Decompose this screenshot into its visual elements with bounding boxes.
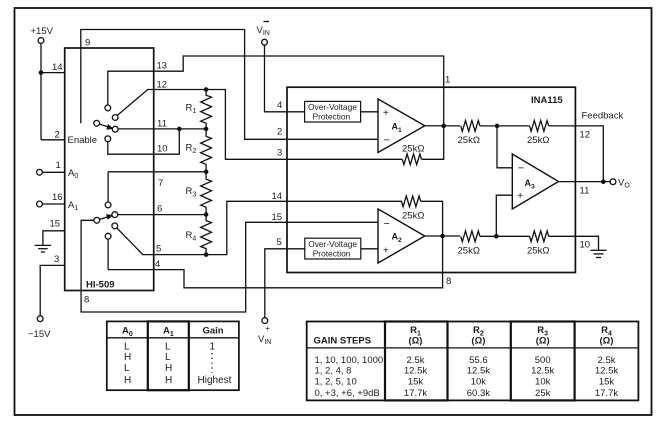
wire Vin+ to INA pin 5 <box>265 249 305 318</box>
svg-text:L: L <box>165 342 171 353</box>
terminal circle 1 <box>37 169 43 175</box>
resistor R1 <box>201 90 212 129</box>
svg-text:+: + <box>265 324 270 333</box>
svg-text:−: − <box>384 218 390 230</box>
svg-text:−: − <box>384 135 390 147</box>
wire A1 feedback <box>422 126 444 159</box>
resistor A1 feedback 25k <box>402 154 421 165</box>
wire Vin- to INA pin 4 <box>265 45 305 112</box>
svg-text:GAIN STEPS: GAIN STEPS <box>314 336 372 347</box>
svg-text:2.5k: 2.5k <box>598 355 616 366</box>
svg-text:A0: A0 <box>122 326 133 339</box>
svg-text:17.7k: 17.7k <box>404 388 427 399</box>
node A3 plus junction <box>494 234 499 239</box>
svg-text:25kΩ: 25kΩ <box>458 135 480 146</box>
multiplexer HI-509 box <box>65 48 154 291</box>
wire A1 out <box>425 125 460 127</box>
wire pin 9 to INA pin 2 <box>81 30 378 140</box>
terminal circle 0 <box>38 38 44 44</box>
amplifier INA115 box <box>287 87 575 272</box>
wire A2 out <box>425 235 460 237</box>
svg-text:Feedback: Feedback <box>582 111 624 122</box>
wire throw to pin 4 <box>107 239 109 270</box>
wire to A3 minus <box>497 126 512 168</box>
svg-text:A1: A1 <box>68 200 78 212</box>
svg-text:H: H <box>124 375 131 386</box>
wire to A3 plus <box>496 195 512 236</box>
svg-text:12.5k: 12.5k <box>595 366 618 377</box>
wire A3 out to Vo <box>559 181 611 183</box>
svg-text:25kΩ: 25kΩ <box>458 246 480 257</box>
svg-text:R3: R3 <box>186 186 197 199</box>
svg-text:15: 15 <box>50 219 61 230</box>
svg-text:(Ω): (Ω) <box>471 336 485 347</box>
svg-text:Enable: Enable <box>68 135 98 146</box>
wire pin 6 <box>118 214 207 216</box>
wire throw to pin 13 <box>108 71 154 105</box>
svg-text:A1: A1 <box>163 326 174 339</box>
switch contact circle 5 <box>105 202 111 208</box>
over-voltage protection box 2 <box>305 238 361 259</box>
svg-text:Protection: Protection <box>313 112 351 122</box>
node R4 bottom <box>204 252 209 257</box>
svg-text:2: 2 <box>55 130 60 141</box>
svg-text:500: 500 <box>535 355 551 366</box>
resistor R3 <box>201 172 212 215</box>
svg-text:25kΩ: 25kΩ <box>402 144 424 155</box>
svg-text:55.6: 55.6 <box>469 355 488 366</box>
svg-text:H: H <box>165 375 172 386</box>
svg-text:R4: R4 <box>186 230 197 243</box>
wire pin 5 to INA pin 14 <box>206 201 402 254</box>
switch contact circle 8 <box>112 223 118 229</box>
svg-text:A0: A0 <box>68 168 78 180</box>
svg-text:11: 11 <box>580 186 590 197</box>
svg-text:VO: VO <box>618 178 630 190</box>
wire pin 8 to INA pin 15 <box>81 222 378 312</box>
svg-text:+: + <box>383 246 389 257</box>
node Vo <box>601 179 606 184</box>
svg-text:1, 2, 5, 10: 1, 2, 5, 10 <box>315 376 357 387</box>
svg-text:VIN: VIN <box>257 25 270 37</box>
over-voltage protection box 1 <box>305 101 361 122</box>
node A2 out <box>440 234 445 239</box>
lower wiper arrowhead <box>107 215 113 219</box>
wire pin 10 <box>108 129 180 154</box>
node A3 minus junction <box>495 124 500 129</box>
svg-text:Over-Voltage: Over-Voltage <box>308 239 357 249</box>
svg-text:5: 5 <box>156 244 161 255</box>
svg-text:−15V: −15V <box>28 329 51 340</box>
node pin10/11 junction <box>177 127 182 132</box>
wire pin 15 <box>43 231 65 246</box>
switch contact circle 6 <box>112 212 118 218</box>
wire throw to pin 5 <box>117 228 206 255</box>
svg-text:L: L <box>124 342 130 353</box>
node R1/R2 junction <box>204 127 209 132</box>
wire pin 12 to INA pin 3 <box>206 90 402 160</box>
resistor 25k upper right <box>530 121 549 132</box>
node R3/R4 junction <box>204 212 209 217</box>
op-amp A2 <box>378 209 425 263</box>
wire +15V down <box>40 43 42 140</box>
svg-text:5: 5 <box>277 237 282 248</box>
terminal circle 6 <box>610 179 616 185</box>
svg-text:4: 4 <box>277 100 282 111</box>
svg-text:10: 10 <box>157 144 168 155</box>
svg-text:60.3k: 60.3k <box>467 388 490 399</box>
svg-text:3: 3 <box>277 148 282 159</box>
svg-text:Protection: Protection <box>313 249 351 259</box>
wire feedback to Vo <box>549 126 604 182</box>
svg-text:4: 4 <box>155 259 160 270</box>
svg-text:1, 10, 100, 1000: 1, 10, 100, 1000 <box>315 355 384 366</box>
svg-text:2.5k: 2.5k <box>407 355 425 366</box>
wire lower wiper arm <box>100 216 110 219</box>
wire pin 13 to INA pin 1 <box>154 56 444 126</box>
svg-text:Highest: Highest <box>198 375 232 386</box>
svg-text:HI-509: HI-509 <box>86 280 115 291</box>
resistor R4 <box>201 215 212 255</box>
svg-text:3: 3 <box>54 254 59 265</box>
node R2/R3 junction <box>204 170 209 175</box>
svg-text:VIN: VIN <box>258 334 271 346</box>
op-amp A3 <box>512 154 558 209</box>
svg-text:13: 13 <box>157 61 168 72</box>
svg-text:15: 15 <box>272 212 283 223</box>
node R1 top <box>204 87 209 92</box>
svg-text:12.5k: 12.5k <box>467 366 490 377</box>
ground at pin 15 <box>35 244 52 246</box>
svg-text:8: 8 <box>446 276 451 287</box>
upper wiper arrowhead <box>107 125 113 129</box>
switch contact circle 1 <box>112 115 118 121</box>
terminal circle 3 <box>37 316 43 322</box>
Vin- overbar <box>264 21 270 23</box>
terminal circle 4 <box>262 39 268 45</box>
svg-text:R2: R2 <box>186 143 197 156</box>
svg-text:Over-Voltage: Over-Voltage <box>308 102 357 112</box>
switch contact circle 9 <box>105 233 111 239</box>
svg-text:11: 11 <box>157 119 167 130</box>
wire A1out-chain <box>480 125 530 127</box>
svg-text:9: 9 <box>85 38 90 49</box>
wire A2 feedback <box>421 201 443 236</box>
wire pin10 to ground <box>549 236 599 250</box>
switch contact circle 2 <box>94 120 100 126</box>
resistor 25k lower left <box>461 231 480 242</box>
svg-text:12: 12 <box>580 130 591 141</box>
wire pin 3 <box>40 265 64 316</box>
svg-text:12.5k: 12.5k <box>404 366 427 377</box>
svg-text:7: 7 <box>158 178 163 189</box>
ground at pin 10 <box>591 249 607 251</box>
svg-text:2: 2 <box>277 127 282 138</box>
svg-text:8: 8 <box>84 295 89 306</box>
wire A2out-chain <box>480 235 530 237</box>
svg-text:INA115: INA115 <box>531 95 563 106</box>
svg-text:+: + <box>383 108 389 119</box>
svg-text:12: 12 <box>157 80 168 91</box>
svg-text:10: 10 <box>580 240 591 251</box>
wire OVP2 to A2 + <box>361 248 378 250</box>
wire upper wiper arm <box>100 124 110 127</box>
svg-text:−: − <box>518 163 524 175</box>
wire pin 1 A0 <box>42 171 64 173</box>
svg-text:12.5k: 12.5k <box>531 366 554 377</box>
switch contact circle 7 <box>94 217 100 223</box>
svg-text:(Ω): (Ω) <box>536 336 550 347</box>
wire pin 14 <box>41 72 65 74</box>
wire lower common <box>81 220 94 290</box>
resistor A2 feedback 25k <box>402 196 421 207</box>
svg-text:(Ω): (Ω) <box>409 336 423 347</box>
wire pin 7 <box>108 171 206 173</box>
resistor 25k lower right <box>530 231 549 242</box>
resistor 25k upper left <box>461 121 480 132</box>
svg-text:10k: 10k <box>535 376 551 387</box>
svg-text:H: H <box>165 363 172 374</box>
node +15V/pin14 junction <box>39 70 44 75</box>
svg-text:1, 2, 4, 8: 1, 2, 4, 8 <box>315 366 352 377</box>
terminal circle 5 <box>262 318 268 324</box>
resistor R2 <box>201 129 212 172</box>
svg-text:6: 6 <box>157 204 162 215</box>
svg-text:25kΩ: 25kΩ <box>527 135 549 146</box>
svg-text:(Ω): (Ω) <box>600 336 614 347</box>
wire pin 11 <box>118 128 206 130</box>
svg-text:10k: 10k <box>471 376 487 387</box>
svg-text:25k: 25k <box>535 388 551 399</box>
svg-text:17.7k: 17.7k <box>595 388 618 399</box>
svg-text:14: 14 <box>52 62 63 73</box>
switch contact circle 3 <box>112 126 118 132</box>
op-amp A1 <box>378 99 425 153</box>
svg-text:25kΩ: 25kΩ <box>527 246 549 257</box>
wire pin 2 Enable <box>41 139 65 141</box>
svg-text:1: 1 <box>210 342 216 353</box>
switch contact circle 0 <box>105 105 111 111</box>
wire pin 16 A1 <box>42 203 64 205</box>
terminal circle 2 <box>37 201 43 207</box>
wire throw to pin 12 <box>117 90 206 116</box>
svg-text:1: 1 <box>56 160 61 171</box>
svg-text:+: + <box>517 191 523 202</box>
svg-text:15k: 15k <box>599 376 615 387</box>
wire pin 4 to INA pin 8 <box>154 236 443 288</box>
svg-text:14: 14 <box>272 191 283 202</box>
node A1 out <box>441 124 446 129</box>
wire OVP1 to A1 + <box>361 111 378 113</box>
svg-text:0, +3, +6, +9dB: 0, +3, +6, +9dB <box>315 388 380 399</box>
svg-text:25kΩ: 25kΩ <box>402 211 424 222</box>
svg-text:15k: 15k <box>408 376 424 387</box>
gain steps table <box>307 322 639 401</box>
svg-text:R1: R1 <box>186 103 197 116</box>
switch contact circle 4 <box>105 136 111 142</box>
gain truth table <box>107 321 239 390</box>
wire throw to pin 7 <box>107 172 109 202</box>
svg-text:Gain: Gain <box>203 326 224 337</box>
svg-text:+15V: +15V <box>31 26 54 37</box>
wire pin 4 <box>108 269 154 271</box>
svg-text:16: 16 <box>52 192 63 203</box>
svg-text:H: H <box>124 352 131 363</box>
svg-text:L: L <box>165 352 171 363</box>
svg-text:L: L <box>124 363 130 374</box>
svg-text:1: 1 <box>445 75 450 86</box>
